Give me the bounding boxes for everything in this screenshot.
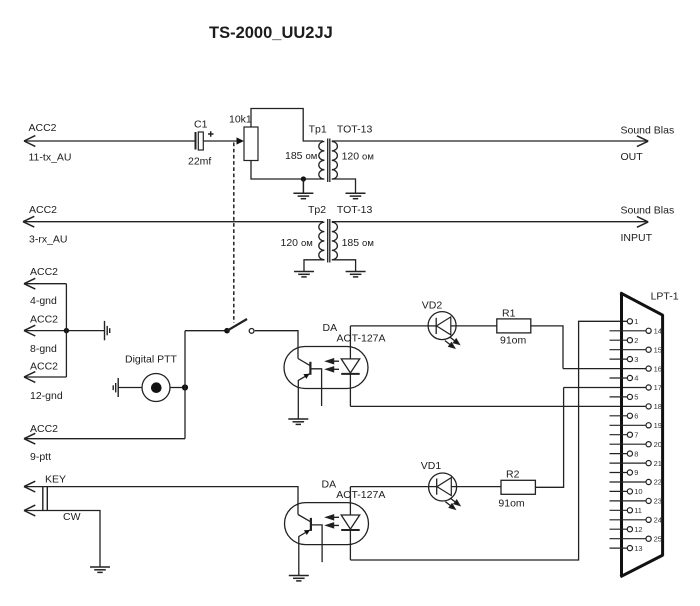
svg-text:16: 16: [654, 364, 662, 373]
pin 4: [610, 377, 628, 379]
wire line1 left: [24, 140, 195, 142]
svg-text:10: 10: [634, 487, 642, 496]
svg-text:4: 4: [634, 374, 638, 383]
wire pin16 horizontal: [563, 368, 646, 370]
wire Tp2 primary bottom to ground: [304, 260, 324, 272]
svg-text:Digital PTT: Digital PTT: [125, 354, 178, 366]
optocoupler U1 body: [284, 347, 368, 389]
svg-text:KEY: KEY: [45, 474, 66, 486]
pin 14: [610, 330, 647, 332]
svg-text:19: 19: [654, 421, 662, 430]
dashed link pot wiper to switch: [233, 143, 235, 323]
arrow right INPUT: [637, 217, 648, 228]
svg-text:13: 13: [634, 544, 642, 553]
svg-text:C1: C1: [194, 119, 208, 131]
pin 18 (wired): [646, 404, 651, 409]
svg-text:3: 3: [634, 355, 638, 364]
wire Tp1 secondary bottom to ground: [332, 179, 356, 193]
pin 25: [610, 538, 647, 540]
cathode lead opto2 down: [349, 530, 351, 560]
svg-text:20: 20: [654, 440, 662, 449]
pin 21: [610, 462, 647, 464]
svg-text:91om: 91om: [498, 498, 525, 510]
pin 19: [610, 424, 647, 426]
svg-text:VD2: VD2: [422, 300, 443, 312]
svg-text:17: 17: [654, 383, 662, 392]
svg-text:ACC2: ACC2: [30, 360, 58, 372]
svg-text:8-gnd: 8-gnd: [30, 343, 57, 355]
svg-text:23: 23: [654, 497, 662, 506]
wire pot top to Tp1: [251, 109, 323, 142]
svg-text:10k1: 10k1: [229, 113, 252, 125]
optocoupler U2 body: [285, 503, 369, 545]
chassis ground left of PTT jack: [113, 378, 118, 397]
LED inside opto1: [341, 359, 360, 373]
svg-text:15: 15: [654, 345, 662, 354]
ground under CW: [90, 567, 110, 572]
wire line1 right (to Sound Blas OUT): [332, 140, 648, 142]
anode lead opto1 up: [349, 326, 351, 359]
switch S1: [224, 328, 230, 334]
LPT pins: [610, 317, 662, 553]
ground under opto1 emitter: [288, 419, 308, 424]
svg-text:22mf: 22mf: [188, 156, 211, 168]
wire opto1 anode to VD2: [350, 325, 428, 327]
wire 4-gnd: [24, 283, 66, 285]
wiper arrow into potentiometer: [237, 137, 244, 144]
svg-text:9: 9: [634, 468, 638, 477]
svg-text:120 ом: 120 ом: [342, 151, 374, 163]
svg-text:LPT-1: LPT-1: [651, 291, 679, 303]
pin 10: [610, 490, 628, 492]
svg-text:DA: DA: [323, 322, 338, 334]
wire switch to opto1: [255, 331, 298, 359]
wire PTT to node: [170, 387, 185, 389]
pin 22: [610, 481, 647, 483]
svg-text:11: 11: [634, 506, 642, 515]
arrow left line2: [23, 216, 34, 227]
svg-text:7: 7: [634, 430, 638, 439]
svg-text:12: 12: [634, 525, 642, 534]
svg-text:185 ом: 185 ом: [285, 150, 317, 162]
transistor Q1 (opto1 phototransistor): [309, 362, 311, 375]
wire opto1 cathode to pin18: [350, 405, 646, 407]
svg-text:3-rx_AU: 3-rx_AU: [29, 234, 68, 246]
wire pin17 horizontal: [564, 387, 646, 389]
wire pot bottom to gnd node: [251, 161, 323, 180]
pin 3: [610, 358, 628, 360]
svg-text:INPUT: INPUT: [621, 232, 653, 244]
junction dot PTT node: [182, 384, 188, 390]
svg-text:Sound Blas: Sound Blas: [621, 125, 675, 137]
wire line2 right (to Sound Blas INPUT): [332, 221, 648, 223]
wire R1 to pin16: [531, 326, 563, 369]
svg-text:Sound Blas: Sound Blas: [621, 205, 675, 217]
svg-text:CW: CW: [63, 511, 81, 523]
svg-text:R2: R2: [506, 469, 520, 481]
wire CW to ground: [24, 511, 100, 568]
pin 16 (wired): [646, 366, 651, 371]
svg-text:Tp1: Tp1: [309, 124, 327, 136]
Tp1 right winding: [332, 142, 338, 180]
svg-text:DA: DA: [322, 478, 337, 490]
svg-text:22: 22: [654, 478, 662, 487]
light arrows opto1: [326, 359, 339, 364]
ground under Tp2 left: [294, 272, 314, 277]
pin 13: [610, 547, 628, 549]
Tp2 left winding: [319, 222, 325, 260]
base stub opto1: [311, 369, 322, 406]
svg-text:VD1: VD1: [421, 460, 442, 472]
Tp2 core: [327, 219, 329, 263]
ground under opto2 emitter: [289, 576, 309, 581]
base stub opto2: [311, 525, 322, 562]
wire KEY to opto2: [24, 487, 298, 515]
wire ground bus vertical: [65, 284, 67, 377]
wire R2 to pin17: [535, 388, 563, 488]
svg-text:2: 2: [634, 336, 638, 345]
svg-text:5: 5: [634, 393, 638, 402]
Tp1 core: [327, 139, 329, 183]
light arrows VD2: [450, 337, 460, 344]
wire 8-gnd to chassis ground: [24, 330, 105, 332]
wire 9-ptt: [24, 438, 185, 440]
svg-text:AOT-127A: AOT-127A: [336, 489, 385, 501]
svg-text:11-tx_AU: 11-tx_AU: [29, 152, 72, 164]
pin 17 (wired): [646, 385, 651, 390]
svg-text:14: 14: [654, 327, 662, 336]
wire PTT node vertical: [184, 331, 186, 439]
pin 15: [610, 349, 647, 351]
wire opto2 cathode to pin1: [350, 321, 627, 560]
arrow right OUT: [637, 136, 648, 147]
jack bars KEY/CW: [42, 487, 44, 511]
pin 8: [610, 453, 628, 455]
ground under Tp1 left: [293, 179, 313, 199]
junction dot gnd bus: [64, 328, 69, 333]
pin 12: [610, 528, 628, 530]
pin 20: [610, 443, 647, 445]
svg-text:25: 25: [654, 534, 662, 543]
wire VD2 to R1: [456, 325, 497, 327]
wire to switch pivot: [185, 330, 227, 332]
svg-text:ACC2: ACC2: [30, 266, 58, 278]
svg-text:12-gnd: 12-gnd: [30, 390, 63, 402]
pin 6: [610, 415, 628, 417]
anode lead opto2 up: [349, 487, 351, 515]
pin 2: [610, 339, 628, 341]
Tp1 left winding: [319, 142, 325, 180]
node junction dot pot/gnd: [301, 176, 306, 181]
svg-text:TOT-13: TOT-13: [337, 204, 373, 216]
svg-text:120 ом: 120 ом: [281, 237, 313, 249]
arrow left line1: [24, 136, 35, 147]
svg-text:185 ом: 185 ом: [342, 237, 374, 249]
ground under Tp1 right: [346, 193, 366, 198]
wire 12-gnd: [24, 376, 66, 378]
svg-text:ACC2: ACC2: [30, 313, 58, 325]
Tp2 right winding: [332, 222, 338, 260]
svg-text:6: 6: [634, 412, 638, 421]
chassis ground right of 8-gnd: [105, 321, 110, 340]
svg-text:AOT-127A: AOT-127A: [337, 332, 386, 344]
svg-text:TS-2000_UU2JJ: TS-2000_UU2JJ: [209, 24, 333, 42]
pin 5: [610, 396, 628, 398]
pin 11: [610, 509, 628, 511]
svg-text:4-gnd: 4-gnd: [30, 295, 57, 307]
svg-text:Tp2: Tp2: [308, 204, 326, 216]
svg-text:8: 8: [634, 449, 638, 458]
wire Tp2 secondary bottom to ground: [332, 260, 356, 272]
pin 1 (wired): [627, 319, 632, 324]
pin 24: [610, 519, 647, 521]
light arrows opto2: [326, 515, 339, 520]
pin 9: [610, 472, 628, 474]
pin 23: [610, 500, 647, 502]
svg-text:21: 21: [654, 459, 662, 468]
LED inside opto2: [341, 515, 360, 529]
svg-text:91om: 91om: [500, 335, 527, 347]
svg-text:9-ptt: 9-ptt: [30, 451, 51, 463]
svg-text:OUT: OUT: [621, 151, 644, 163]
cathode lead opto1 down to pin18 wire: [349, 374, 351, 407]
svg-text:ACC2: ACC2: [29, 204, 57, 216]
pin 7: [610, 434, 628, 436]
svg-text:18: 18: [654, 402, 662, 411]
wire C1 to pot: [203, 140, 237, 142]
light arrows VD1: [450, 498, 460, 505]
svg-text:ACC2: ACC2: [29, 122, 57, 134]
wire opto2 anode to VD1: [350, 486, 428, 488]
svg-text:1: 1: [634, 317, 638, 326]
svg-text:TOT-13: TOT-13: [337, 124, 373, 136]
wire VD1 to R2: [457, 486, 501, 488]
wire gnd to PTT jack: [118, 387, 142, 389]
svg-text:R1: R1: [502, 308, 516, 320]
ground under Tp2 right: [346, 272, 366, 277]
svg-text:24: 24: [654, 516, 662, 525]
transistor Q2 (opto2 phototransistor): [310, 518, 312, 531]
wire line2 left: [23, 221, 323, 223]
